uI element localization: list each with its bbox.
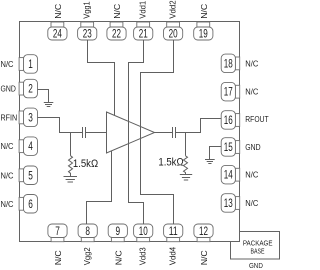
ground for pin15 bbox=[205, 160, 215, 164]
svg-text:N/C: N/C bbox=[1, 141, 14, 151]
pin 18 bbox=[221, 54, 240, 73]
svg-text:N/C: N/C bbox=[245, 58, 258, 68]
svg-text:1.5kΩ: 1.5kΩ bbox=[158, 157, 183, 169]
pin 8 bbox=[78, 224, 97, 242]
wire Vdd2 pin20 to Vdd4 pin11 bbox=[141, 40, 174, 224]
svg-text:15: 15 bbox=[224, 142, 233, 154]
capacitor C2 bbox=[173, 127, 176, 138]
wire junction to resistor R1 bbox=[70, 133, 72, 156]
pin 21 bbox=[134, 22, 153, 40]
pin 14 bbox=[221, 165, 240, 184]
package outline bbox=[20, 22, 240, 242]
svg-text:13: 13 bbox=[224, 198, 233, 210]
ground for R1 bbox=[64, 177, 78, 183]
svg-text:14: 14 bbox=[224, 170, 233, 182]
svg-text:17: 17 bbox=[224, 87, 233, 99]
svg-text:9: 9 bbox=[116, 226, 121, 238]
svg-text:N/C: N/C bbox=[1, 199, 14, 209]
pin 11 bbox=[164, 224, 183, 242]
op-amp U1 bbox=[107, 112, 155, 153]
pin 22 bbox=[107, 22, 126, 40]
svg-text:23: 23 bbox=[83, 28, 92, 40]
svg-text:N/C: N/C bbox=[1, 59, 14, 69]
wire Vgg1 pin23 to amp bbox=[88, 40, 115, 116]
pin 23 bbox=[78, 22, 97, 40]
svg-text:RFIN: RFIN bbox=[1, 112, 18, 122]
pin 4 bbox=[19, 137, 37, 156]
svg-text:19: 19 bbox=[199, 28, 208, 40]
ground for R2 bbox=[180, 175, 192, 181]
pin 17 bbox=[221, 82, 240, 101]
wire Vgg2 pin8 to amp bbox=[87, 151, 112, 224]
pin 20 bbox=[164, 22, 183, 40]
svg-text:N/C: N/C bbox=[245, 198, 258, 208]
pin 3 bbox=[19, 108, 37, 127]
svg-text:N/C: N/C bbox=[53, 4, 63, 19]
svg-text:7: 7 bbox=[55, 226, 60, 238]
svg-text:10: 10 bbox=[139, 226, 148, 238]
pin 1 bbox=[19, 55, 37, 73]
pin 5 bbox=[19, 166, 37, 185]
svg-text:16: 16 bbox=[224, 115, 233, 127]
svg-text:Vgg2: Vgg2 bbox=[82, 247, 92, 265]
svg-text:GND: GND bbox=[245, 142, 260, 152]
wire C1 to amp input bbox=[86, 132, 107, 134]
svg-text:N/C: N/C bbox=[1, 170, 14, 180]
svg-text:4: 4 bbox=[28, 141, 33, 153]
svg-text:2: 2 bbox=[28, 84, 33, 96]
resistor R2 bbox=[184, 156, 188, 175]
svg-text:GND: GND bbox=[1, 84, 16, 94]
pin 9 bbox=[108, 224, 127, 242]
svg-text:Vdd3: Vdd3 bbox=[138, 247, 148, 265]
pin 15 bbox=[221, 138, 240, 157]
pin 12 bbox=[194, 224, 213, 242]
svg-text:3: 3 bbox=[28, 112, 33, 124]
svg-text:GND: GND bbox=[249, 261, 263, 270]
wire Vdd1 pin21 to Vdd3 pin10 bbox=[129, 40, 144, 224]
svg-text:Vgg1: Vgg1 bbox=[82, 1, 92, 19]
pin 2 bbox=[19, 79, 37, 98]
PACKAGE BASE box bbox=[231, 232, 280, 260]
capacitor C1 bbox=[83, 127, 86, 138]
svg-text:BASE: BASE bbox=[251, 247, 265, 256]
svg-text:N/C: N/C bbox=[199, 250, 209, 265]
pin 10 bbox=[134, 224, 153, 242]
pin 6 bbox=[19, 195, 37, 214]
svg-text:11: 11 bbox=[169, 226, 178, 238]
svg-text:22: 22 bbox=[112, 28, 121, 40]
svg-text:Vdd1: Vdd1 bbox=[138, 1, 148, 19]
ground for pin2 bbox=[44, 103, 54, 107]
pin 16 bbox=[221, 111, 240, 130]
wire RFIN pin3 to C1 bbox=[38, 118, 83, 133]
svg-text:Vdd4: Vdd4 bbox=[168, 247, 178, 266]
wire pin2 to ground bbox=[38, 90, 49, 103]
svg-text:24: 24 bbox=[53, 28, 62, 40]
svg-text:N/C: N/C bbox=[245, 170, 258, 180]
svg-text:N/C: N/C bbox=[113, 250, 123, 265]
svg-text:1: 1 bbox=[28, 59, 33, 71]
pin 7 bbox=[48, 224, 67, 242]
wire amp output to C2 bbox=[155, 132, 173, 134]
svg-text:1.5kΩ: 1.5kΩ bbox=[73, 158, 98, 170]
svg-text:N/C: N/C bbox=[53, 250, 63, 265]
svg-text:20: 20 bbox=[169, 28, 178, 40]
svg-text:N/C: N/C bbox=[199, 4, 209, 19]
wire junction to resistor R2 bbox=[185, 133, 187, 156]
svg-text:5: 5 bbox=[28, 170, 33, 182]
wire pin15 to ground bbox=[210, 147, 222, 160]
svg-text:6: 6 bbox=[28, 199, 33, 211]
svg-text:18: 18 bbox=[224, 58, 233, 70]
svg-text:RFOUT: RFOUT bbox=[245, 114, 268, 124]
svg-text:N/C: N/C bbox=[112, 4, 122, 19]
svg-text:8: 8 bbox=[85, 226, 90, 238]
pin 13 bbox=[221, 194, 240, 213]
resistor R1 bbox=[69, 156, 73, 177]
label PACKAGE BASE bbox=[243, 238, 273, 255]
svg-text:Vdd2: Vdd2 bbox=[168, 0, 178, 19]
svg-text:N/C: N/C bbox=[245, 87, 258, 97]
pin 24 bbox=[48, 22, 67, 40]
svg-text:21: 21 bbox=[139, 28, 148, 40]
pin 19 bbox=[194, 22, 213, 40]
svg-text:12: 12 bbox=[199, 226, 208, 238]
wire C2 to RFOUT pin16 bbox=[176, 119, 222, 133]
